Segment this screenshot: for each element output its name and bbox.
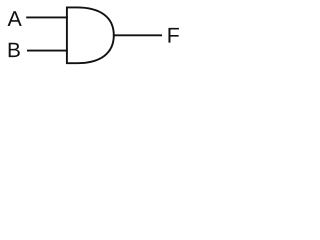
wire F (gate output to label F) <box>113 34 162 36</box>
node A (input label) <box>8 11 22 26</box>
node F (output label) <box>168 28 178 43</box>
node B (input label) <box>9 43 20 57</box>
wire B (input B to gate pin 2) <box>27 50 68 52</box>
wire A (input A to gate pin 1) <box>26 16 68 18</box>
AND gate U1 (2-input) <box>67 7 114 63</box>
